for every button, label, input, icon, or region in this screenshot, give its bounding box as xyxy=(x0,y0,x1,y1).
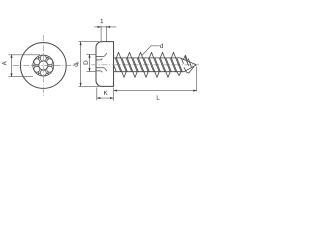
top crest triangles xyxy=(116,52,120,58)
L dimension line xyxy=(114,90,197,92)
thread bottom root line xyxy=(114,65,197,72)
A arrowheads xyxy=(10,54,12,77)
D bottom extension line xyxy=(87,71,97,73)
screw tip point xyxy=(185,56,189,66)
dk dimension line xyxy=(80,42,82,87)
K arrowheads xyxy=(97,97,114,99)
label K xyxy=(104,91,108,95)
label L xyxy=(157,95,160,99)
bottom crest triangles xyxy=(122,72,126,78)
dimension dk xyxy=(78,42,99,87)
dk arrowheads xyxy=(80,42,82,87)
L arrowheads xyxy=(114,90,197,92)
K dimension line xyxy=(97,97,114,99)
leader and label d xyxy=(142,46,160,56)
A bottom extension line xyxy=(9,76,34,78)
side view centerline (screw axis) xyxy=(91,64,199,66)
K right extension line xyxy=(113,88,115,101)
front view: head outer circle xyxy=(20,43,66,89)
dimension L xyxy=(114,67,197,92)
K left extension line xyxy=(96,88,98,101)
A top extension line xyxy=(9,54,41,56)
front view: recess inner circle xyxy=(33,55,54,76)
torx recess: cusp marks between lobes xyxy=(33,57,54,75)
torx recess: lobe lower-right xyxy=(47,66,53,72)
front view centerlines xyxy=(13,35,74,97)
torx recess: center circle xyxy=(39,61,48,70)
label dk (rotated) xyxy=(73,61,78,66)
thread flank lines xyxy=(114,65,117,71)
dimension D xyxy=(87,54,97,71)
dimension A xyxy=(9,54,41,77)
recess bottom outer line with flare xyxy=(96,68,106,71)
L right extension line xyxy=(196,67,198,92)
torx recess: lobe lower-left xyxy=(34,66,40,72)
recess top outer line with flare xyxy=(96,53,106,57)
dk top extension line xyxy=(78,41,99,43)
torx recess: lobe bottom xyxy=(40,70,46,76)
dimension K xyxy=(97,88,114,101)
torx recess: lobe top xyxy=(40,55,46,61)
recess top inner stub xyxy=(96,58,102,60)
label A (rotated) xyxy=(2,61,6,65)
thread xyxy=(114,52,197,77)
A dimension line xyxy=(11,54,13,77)
label D (rotated) xyxy=(83,61,87,65)
recess bottom inner stub xyxy=(96,71,102,72)
side view: recess slot lines xyxy=(96,53,106,72)
horizontal centerline xyxy=(13,65,74,67)
thread top root line xyxy=(114,58,197,65)
dimension 1 (recess) at top xyxy=(94,26,116,42)
D top extension line xyxy=(87,53,97,55)
dk bottom extension line xyxy=(78,85,99,87)
label 1 xyxy=(101,19,104,23)
side view: head outline xyxy=(96,42,114,87)
left extension line xyxy=(100,26,102,42)
D arrowheads xyxy=(88,54,90,71)
dimension line with tails xyxy=(94,26,116,28)
arrowheads for dimension 1 xyxy=(98,26,111,28)
right extension line xyxy=(106,26,108,42)
torx recess: lobe upper-right xyxy=(47,59,53,65)
vertical centerline xyxy=(42,35,44,97)
D dimension line xyxy=(89,54,91,71)
torx recess: lobe upper-left xyxy=(34,59,40,65)
